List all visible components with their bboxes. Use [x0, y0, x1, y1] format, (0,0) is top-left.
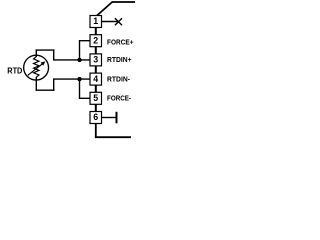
svg-text:6: 6 — [93, 112, 98, 122]
svg-text:5: 5 — [93, 93, 98, 103]
terminal box pin 2 — [90, 35, 102, 47]
wire: branch up to pin 2 — [80, 41, 91, 60]
svg-text:RTDIN-: RTDIN- — [107, 74, 130, 83]
wire: net RTDIN+ horizontal to pin 3 — [53, 59, 90, 61]
wire: RTD top lead up — [35, 49, 37, 57]
svg-text:FORCE-: FORCE- — [107, 94, 131, 103]
wire: top jog horizontal — [36, 49, 55, 51]
terminator bar on pin 6 — [116, 112, 118, 124]
connector strip link 2-3 — [95, 47, 97, 54]
svg-text:RTDIN+: RTDIN+ — [107, 55, 132, 64]
junction dot top net — [77, 58, 81, 62]
no-connect X on pin 1 — [115, 18, 122, 25]
svg-text:1: 1 — [93, 16, 98, 26]
RTD resistor zigzag element — [34, 57, 39, 78]
wire: pin 6 bottom down — [95, 124, 97, 138]
RTD sensor body (circle) — [24, 55, 49, 80]
wire: top off-page horizontal — [112, 1, 136, 3]
terminal box pin 5 — [90, 92, 102, 104]
wire: top jog down — [53, 49, 55, 60]
connector strip link 5-6 — [95, 104, 97, 111]
junction dot bottom net — [77, 77, 81, 81]
wire: bottom off-page horizontal — [95, 136, 131, 138]
terminal box pin 1 — [90, 16, 102, 28]
wire: pin 6 stub right — [102, 117, 117, 119]
wire: pin 1 stub right — [102, 21, 119, 23]
terminal box pin 4 — [90, 73, 102, 85]
svg-text:RTD: RTD — [7, 67, 22, 76]
wire: branch down to pin 5 — [80, 79, 91, 98]
svg-text:4: 4 — [93, 74, 98, 84]
RTD variability arrow — [28, 61, 46, 75]
svg-text:2: 2 — [93, 35, 98, 45]
wire: diagonal off-page from pin 1 — [97, 2, 112, 16]
svg-text:FORCE+: FORCE+ — [107, 38, 134, 47]
wire: bottom jog up — [53, 79, 55, 91]
terminal box pin 6 — [90, 112, 102, 124]
terminal box pin 3 — [90, 54, 102, 66]
connector strip link 1-2 — [95, 28, 97, 35]
wire: bottom jog horizontal — [36, 89, 55, 91]
wire: net RTDIN- horizontal to pin 4 — [53, 78, 90, 80]
connector strip link 3-4 — [95, 66, 97, 73]
wire: RTD bottom lead down — [35, 77, 37, 91]
svg-text:3: 3 — [93, 55, 98, 65]
connector strip link 4-5 — [95, 85, 97, 92]
